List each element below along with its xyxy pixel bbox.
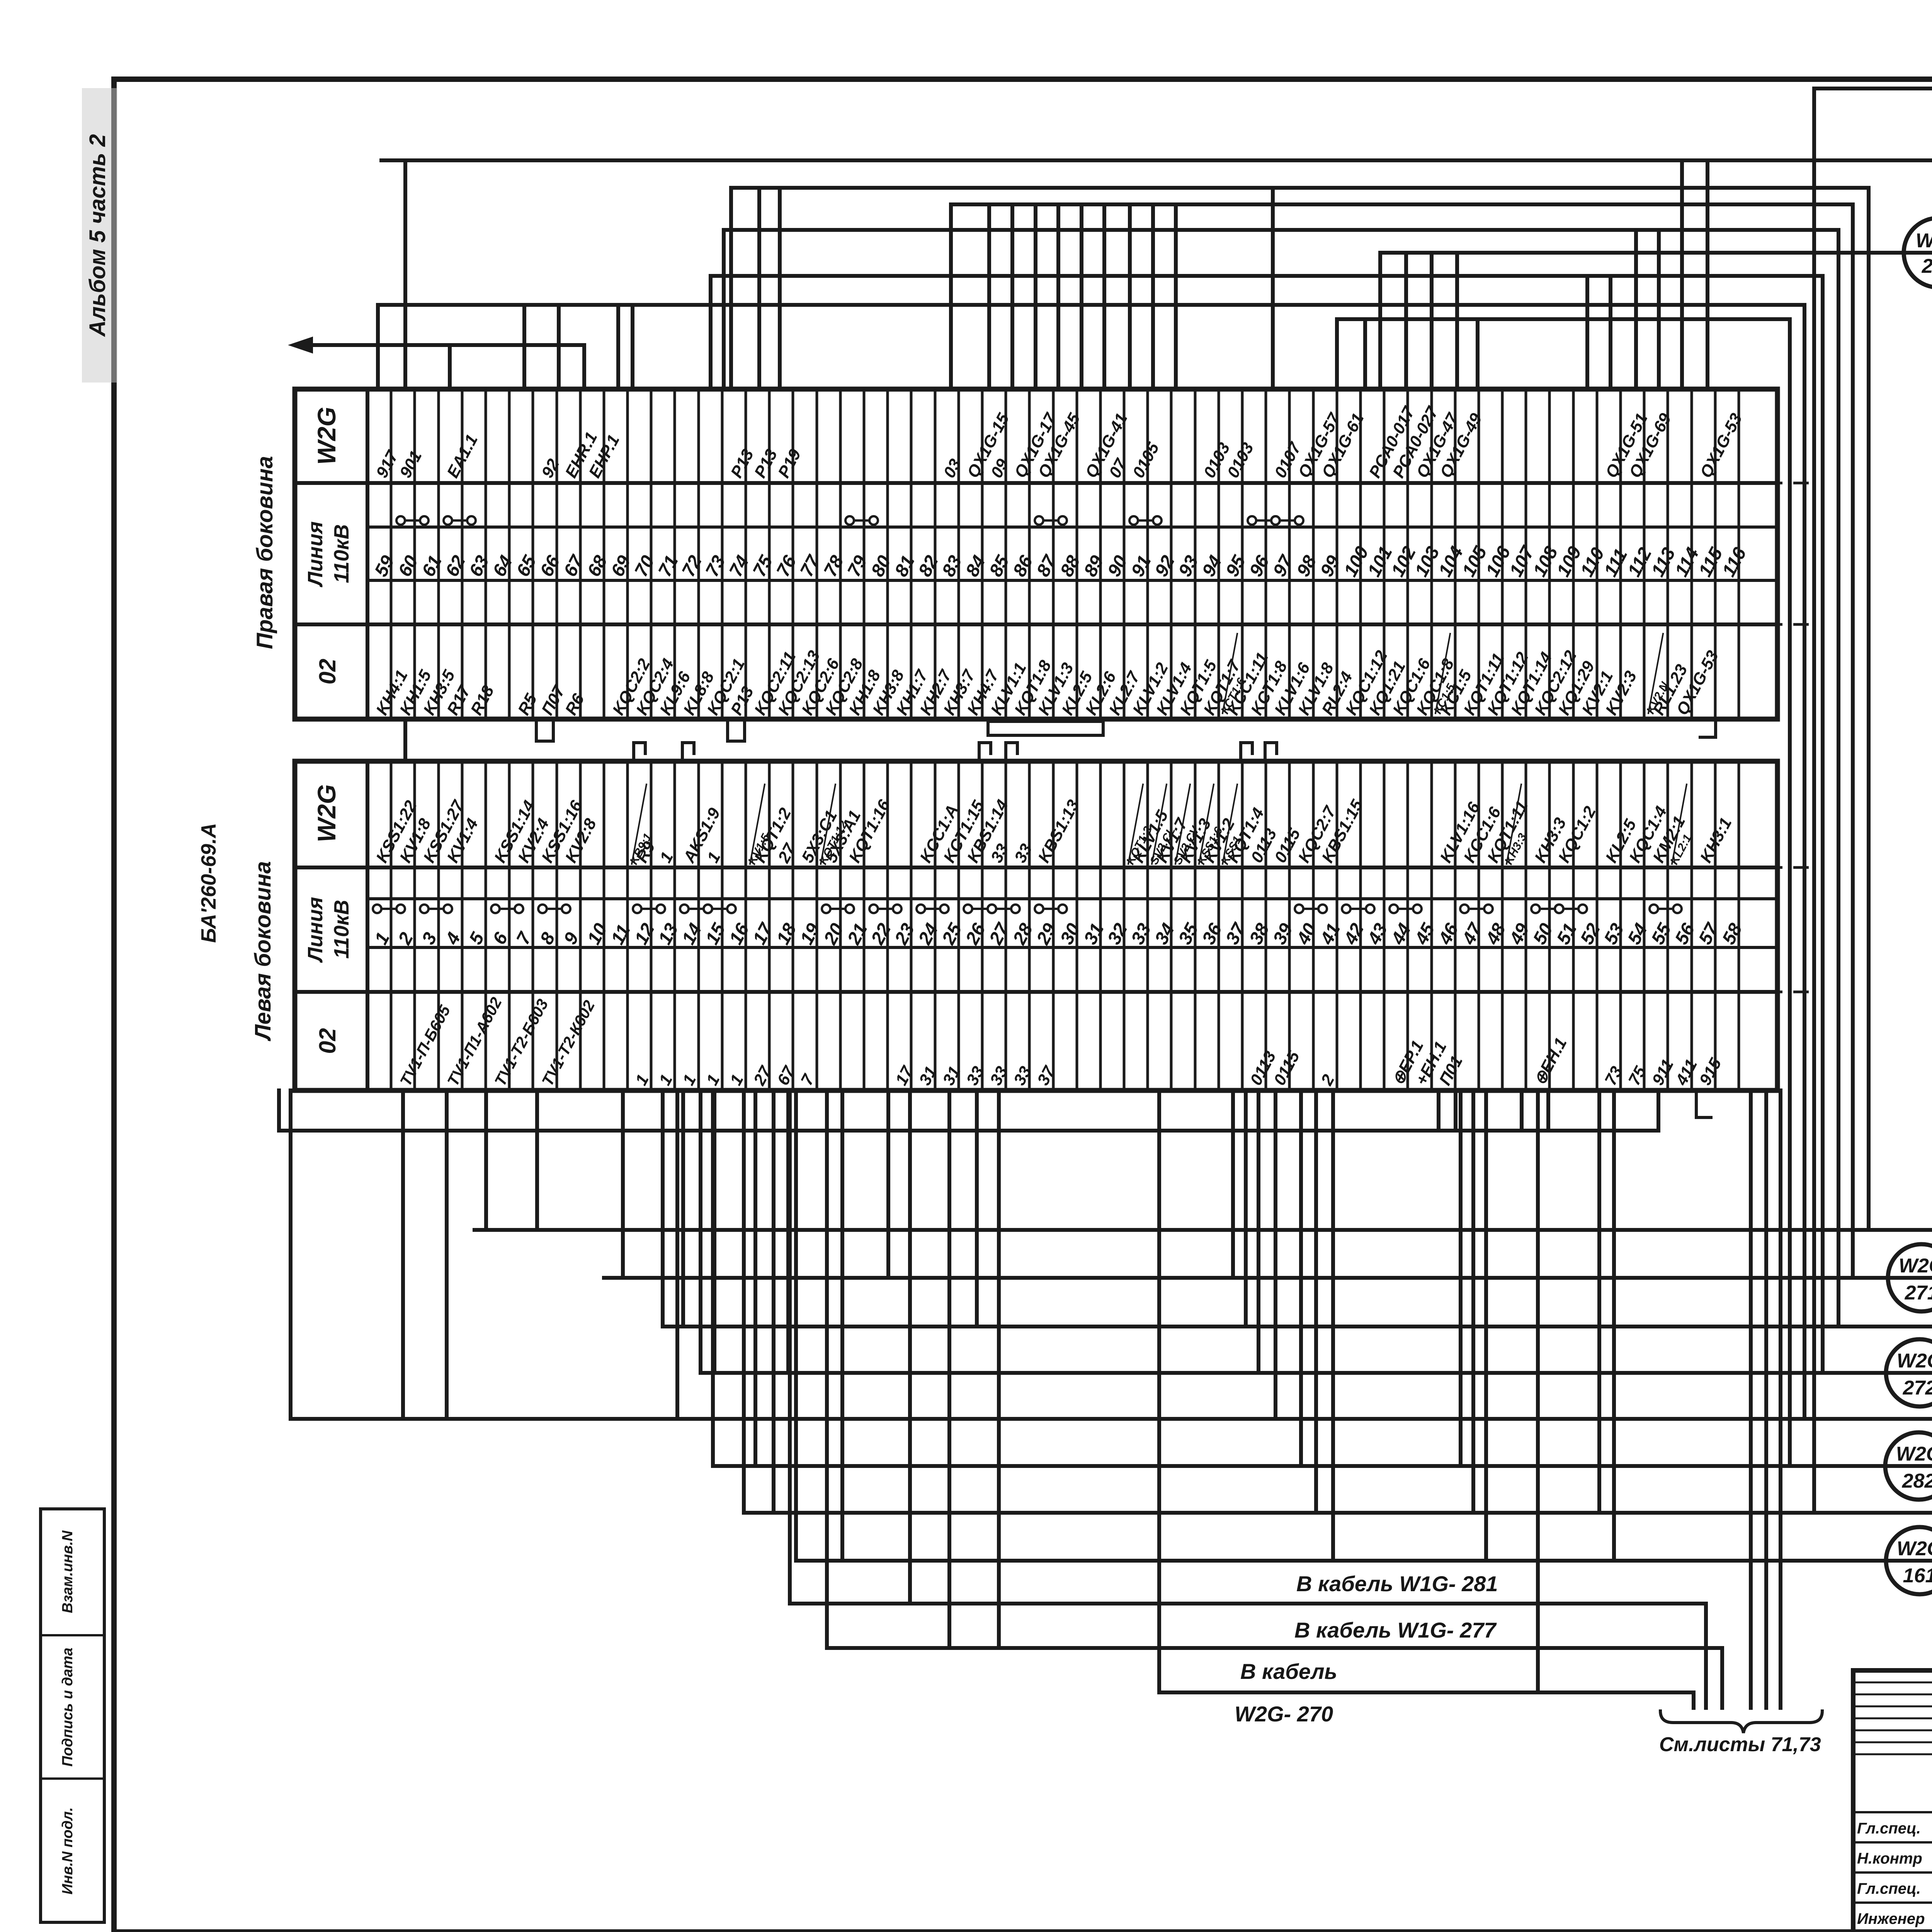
jumper link	[1342, 905, 1350, 913]
wire	[484, 1090, 488, 1230]
wire	[722, 230, 726, 389]
wire run to panel P10 riser	[731, 188, 1869, 1230]
wire panel line P5	[701, 1371, 1932, 1375]
wire	[1455, 253, 1459, 389]
wire	[445, 1090, 449, 1419]
svg-text:Инв.N подл.: Инв.N подл.	[60, 1807, 76, 1895]
svg-text:Инженер: Инженер	[1857, 1910, 1925, 1927]
wire	[1299, 1090, 1303, 1466]
svg-text:110кВ: 110кВ	[330, 900, 353, 959]
wire	[681, 1090, 685, 1327]
jumper hook below upper table	[728, 719, 745, 741]
wire	[1484, 1090, 1488, 1561]
wire	[1476, 319, 1480, 389]
jumper link	[845, 516, 854, 525]
svg-text:271: 271	[1905, 1282, 1932, 1304]
svg-text:Линия: Линия	[304, 521, 327, 587]
wire to node 3	[381, 158, 1932, 162]
wire	[621, 1090, 625, 1278]
jumper link	[396, 516, 405, 525]
jumper hook below upper table right	[1700, 719, 1716, 737]
dashed stub	[1741, 866, 1816, 869]
wire	[975, 1090, 979, 1327]
wire	[1471, 1090, 1475, 1513]
wire	[1546, 1090, 1550, 1131]
wire	[772, 1090, 776, 1513]
jumper link	[633, 905, 641, 913]
jumper link	[1555, 905, 1563, 913]
wire	[631, 305, 634, 389]
wire	[1056, 204, 1060, 389]
wire	[1585, 276, 1589, 389]
wire panel line P15	[291, 1090, 1932, 1419]
wire	[794, 1090, 798, 1561]
wire between tables	[403, 719, 407, 761]
wire	[1656, 1090, 1660, 1131]
wire with arrow to adjacent sheet	[305, 343, 584, 347]
title block	[1853, 1670, 1932, 1932]
wires to sheets 71,73	[1749, 1090, 1753, 1708]
wire	[1335, 319, 1339, 389]
jumper link	[704, 905, 712, 913]
wire	[987, 204, 991, 389]
wire	[949, 204, 953, 389]
wire	[1597, 1090, 1601, 1513]
wire	[1010, 204, 1014, 389]
wire panel line 47	[604, 1276, 1932, 1280]
cable circle W2G-272	[1886, 1339, 1932, 1406]
wire	[778, 188, 782, 389]
jumper link	[444, 516, 452, 525]
jumper link	[1460, 905, 1469, 913]
wire run to panel P15 riser	[378, 305, 1804, 1419]
wire	[711, 1090, 715, 1466]
wire run to panel P8	[1380, 251, 1932, 255]
wire	[535, 1090, 539, 1230]
jumper link	[1035, 516, 1043, 525]
svg-text:W2G: W2G	[312, 407, 341, 465]
svg-text:279: 279	[1922, 255, 1932, 277]
svg-text:Гл.спец.: Гл.спец.	[1857, 1880, 1921, 1897]
wire	[1520, 1090, 1524, 1131]
svg-text:W2G- 270: W2G- 270	[1235, 1702, 1333, 1726]
wire	[709, 276, 713, 389]
wire panel line P7	[744, 1511, 1932, 1515]
svg-text:W2G: W2G	[1916, 230, 1932, 252]
left margin stamp strip	[41, 1509, 104, 1922]
wire to cable W2G-270	[1159, 1090, 1694, 1708]
jumper link	[1531, 905, 1540, 913]
svg-text:Взам.инв.N: Взам.инв.N	[60, 1530, 76, 1613]
svg-text:W2G: W2G	[312, 784, 341, 842]
jumper link	[1389, 905, 1398, 913]
wire	[886, 1090, 890, 1278]
wire	[1128, 204, 1132, 389]
wire	[713, 1090, 716, 1373]
wire	[1151, 204, 1155, 389]
dashed stub	[1741, 482, 1816, 485]
wire	[376, 305, 380, 389]
svg-text:В кабель: В кабель	[1240, 1659, 1337, 1684]
jumper link	[988, 905, 996, 913]
wire	[1459, 1090, 1463, 1466]
wire riser to panel P7 line	[1812, 88, 1816, 1513]
dashed stub	[1741, 623, 1816, 626]
svg-text:W2G: W2G	[1899, 1255, 1932, 1277]
svg-text:В кабель W1G- 277: В кабель W1G- 277	[1294, 1618, 1497, 1642]
svg-text:Подпись и дата: Подпись и дата	[60, 1648, 76, 1767]
wire to cable W1G-281	[790, 1090, 1706, 1708]
svg-text:Гл.спец.: Гл.спец.	[1857, 1820, 1921, 1837]
jumper hook below upper table	[536, 719, 553, 741]
wire	[403, 160, 407, 389]
jumper link	[1035, 905, 1043, 913]
wire	[840, 1090, 844, 1561]
wire panel line P10	[474, 1228, 1932, 1232]
wire	[1244, 1090, 1248, 1327]
wire	[1271, 188, 1275, 389]
jumper link	[1295, 905, 1303, 913]
wire to cable W1G-277	[827, 1090, 1722, 1708]
wire panel line 161	[796, 1559, 1932, 1563]
svg-text:В кабель W1G- 281: В кабель W1G- 281	[1296, 1571, 1498, 1596]
svg-text:W2G: W2G	[1897, 1350, 1932, 1372]
wire	[1363, 319, 1367, 389]
wire	[1612, 1090, 1616, 1561]
wire run to panel P4 riser	[724, 230, 1838, 1327]
svg-text:БА'260-69.А: БА'260-69.А	[197, 823, 220, 943]
album caption	[82, 88, 117, 383]
wire	[1536, 1090, 1540, 1692]
svg-text:161: 161	[1903, 1565, 1932, 1587]
wire	[908, 1090, 912, 1604]
jumper link	[680, 905, 689, 913]
wire	[1331, 1090, 1335, 1561]
jumper bar bracket	[988, 721, 1103, 735]
wire	[616, 305, 620, 389]
wire	[661, 1090, 665, 1327]
cable circle W2G-279	[1904, 218, 1932, 287]
cable circle W2G-271	[1888, 1244, 1932, 1311]
jumper link	[869, 905, 878, 913]
terminal block table: left side (Левая боковина)	[295, 761, 1777, 1090]
jumper link	[1271, 516, 1280, 525]
wire	[1657, 230, 1661, 389]
cable circle W2G-282	[1885, 1432, 1932, 1500]
svg-text:272: 272	[1903, 1377, 1932, 1399]
wire	[1080, 204, 1083, 389]
jumper link	[917, 905, 925, 913]
wire	[1706, 160, 1709, 389]
wire	[557, 305, 561, 389]
wire panel line P4	[663, 1325, 1932, 1328]
wire run to panel P6 riser	[1337, 319, 1790, 1466]
jumper link	[822, 905, 830, 913]
wire	[729, 188, 733, 389]
wire	[1634, 230, 1638, 389]
cable circle W2G-161	[1886, 1527, 1932, 1594]
jumper link	[491, 905, 500, 913]
wire long run upper	[279, 1090, 1658, 1131]
wire	[753, 1090, 757, 1466]
wire	[522, 305, 526, 389]
wire	[757, 188, 761, 389]
svg-text:Линия: Линия	[304, 897, 327, 963]
wire	[448, 345, 452, 389]
wire run to panel 47 riser	[951, 204, 1853, 1278]
svg-text:282: 282	[1902, 1470, 1932, 1492]
jumper hook below lower table right	[1696, 1091, 1711, 1117]
wire	[947, 1090, 951, 1648]
wire	[1680, 160, 1684, 389]
wire panel line P6	[713, 1464, 1932, 1468]
jumper link	[1650, 905, 1658, 913]
wire run to panel P5 riser	[711, 276, 1823, 1373]
svg-text:W2G: W2G	[1897, 1537, 1932, 1560]
svg-text:Н.контр: Н.контр	[1857, 1850, 1922, 1867]
jumper link	[420, 905, 429, 913]
wire	[1274, 1090, 1277, 1419]
wire	[1174, 204, 1178, 389]
wire	[675, 1090, 679, 1419]
dashed stub	[1741, 991, 1816, 993]
jumper link	[1248, 516, 1256, 525]
wire	[1314, 1090, 1318, 1513]
wire	[1034, 204, 1037, 389]
wire	[1231, 1090, 1235, 1278]
wire	[997, 1090, 1001, 1648]
wire	[786, 1090, 790, 1373]
wire	[742, 1090, 746, 1513]
jumper link	[964, 905, 972, 913]
wire	[1430, 253, 1434, 389]
jumper link	[1129, 516, 1138, 525]
wire	[1257, 1090, 1260, 1373]
svg-text:См.листы 71,73: См.листы 71,73	[1659, 1733, 1821, 1756]
brace for sheets 71,73	[1660, 1711, 1822, 1733]
wire	[401, 1090, 405, 1419]
svg-text:Правая боковина: Правая боковина	[252, 456, 277, 649]
jumper hook above lower table	[634, 743, 645, 760]
jumper link	[373, 905, 381, 913]
wire	[699, 1090, 702, 1373]
wire	[1437, 1090, 1440, 1131]
wire	[1404, 253, 1408, 389]
svg-text:110кВ: 110кВ	[330, 524, 353, 583]
wire loop along top and right margin	[1814, 88, 1932, 1523]
jumper link	[538, 905, 547, 913]
terminal block table: right side (Правая боковина)	[295, 389, 1777, 719]
wire	[1454, 1090, 1458, 1131]
wire	[1609, 276, 1612, 389]
svg-text:Альбом 5 часть 2: Альбом 5 часть 2	[85, 134, 110, 337]
svg-text:W2G: W2G	[1896, 1443, 1932, 1465]
svg-text:02: 02	[315, 1028, 340, 1054]
wire	[1102, 204, 1106, 389]
wire	[1378, 253, 1382, 389]
svg-text:Левая боковина: Левая боковина	[250, 861, 276, 1042]
wire	[582, 345, 586, 389]
svg-text:02: 02	[315, 659, 340, 685]
